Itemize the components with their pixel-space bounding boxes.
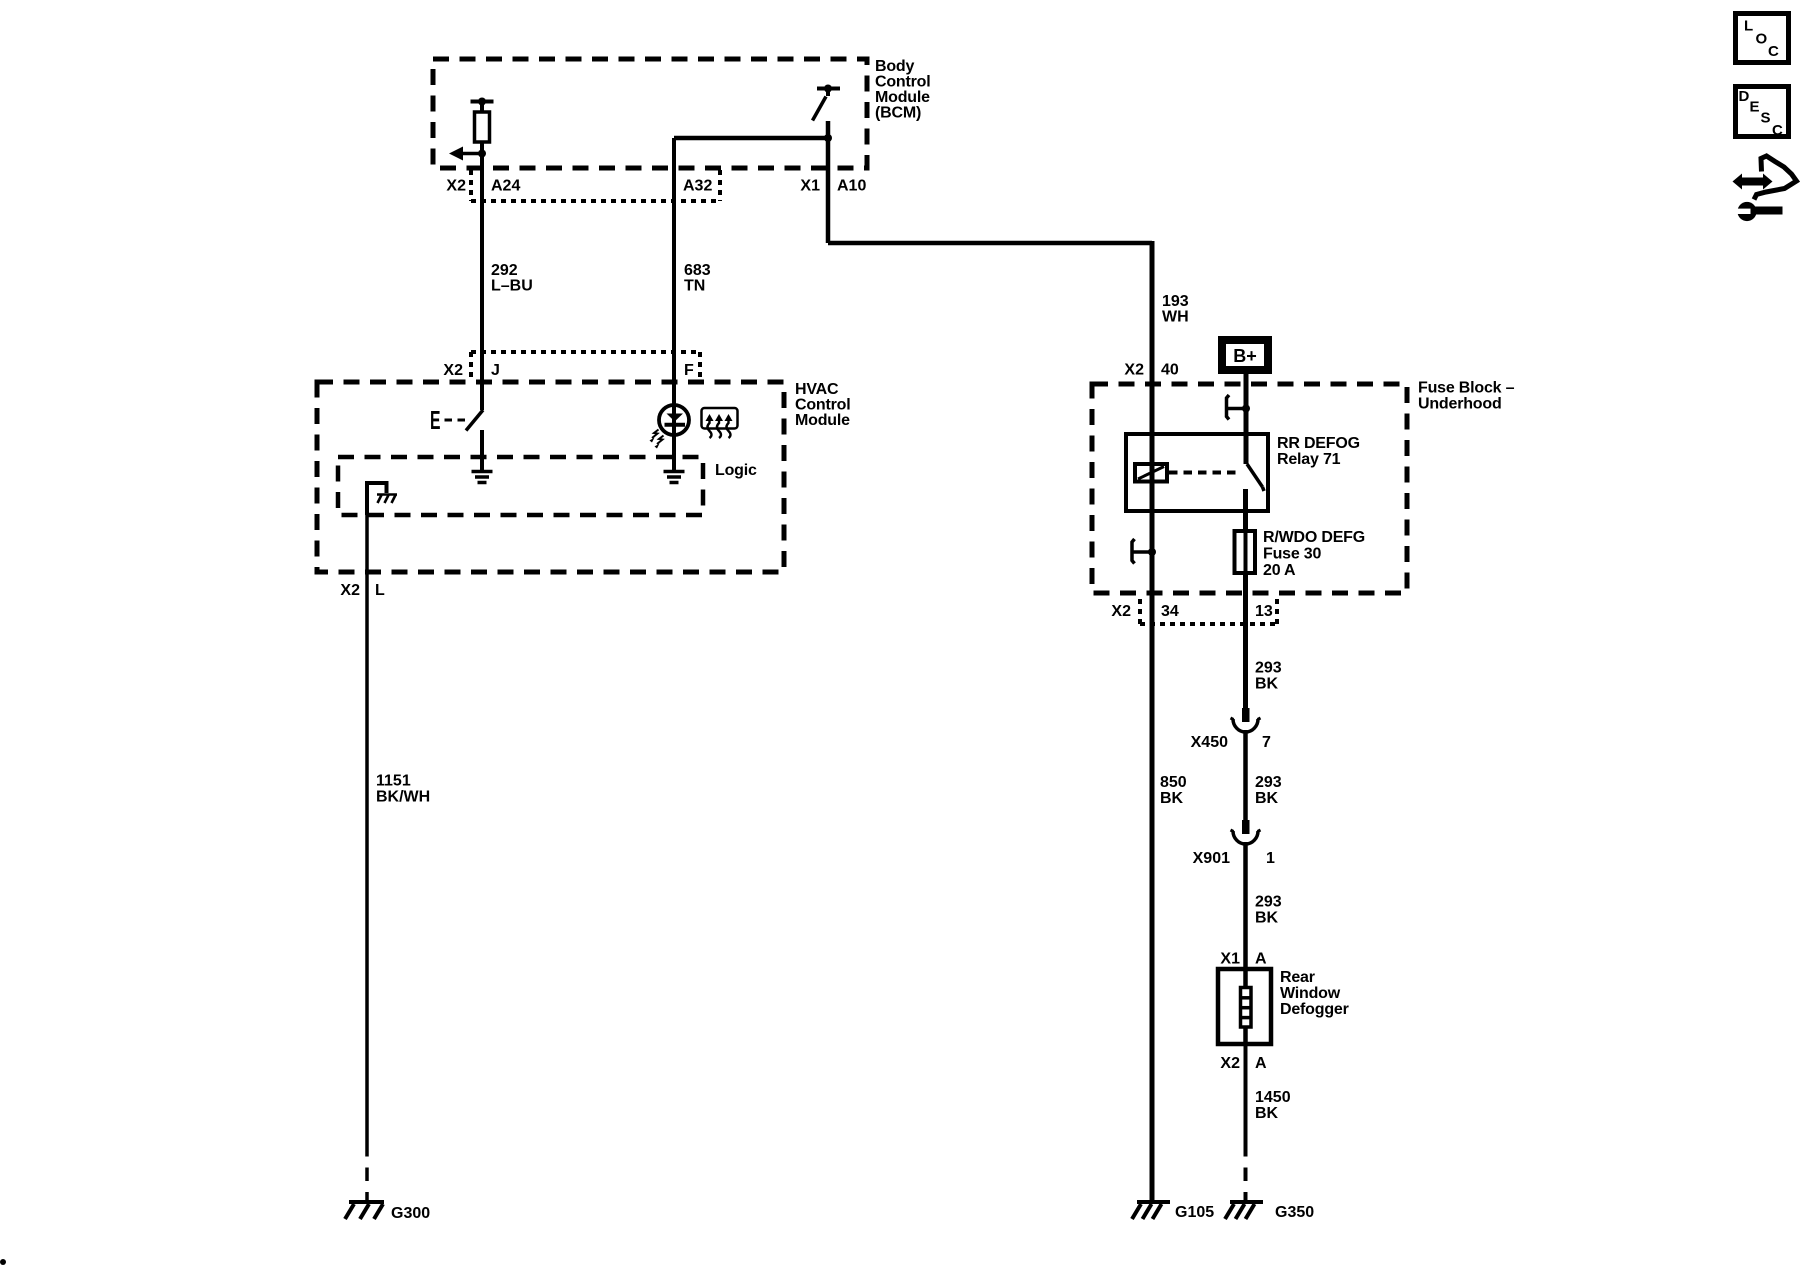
svg-text:Defogger: Defogger bbox=[1280, 1001, 1349, 1018]
node: BCM driver supply tie bbox=[471, 98, 494, 106]
ground: G350 bbox=[1225, 1202, 1263, 1219]
module box: Body Control Module (BCM) bbox=[433, 59, 867, 168]
svg-text:40: 40 bbox=[1161, 362, 1179, 379]
svg-text:BK: BK bbox=[1160, 790, 1184, 807]
wire label: 293 BK (lower) bbox=[1255, 894, 1282, 927]
label: Fuse Block - Underhood bbox=[1418, 380, 1515, 413]
svg-text:L: L bbox=[375, 582, 385, 599]
fuse: R/WDO DEFG Fuse 30 20 A bbox=[1235, 531, 1256, 573]
switch: BCM internal (open blade) bbox=[813, 97, 827, 121]
icon: rear defog heater symbol bbox=[702, 408, 738, 438]
switch: relay contact (open blade) bbox=[1246, 434, 1265, 531]
wire label: 193 WH bbox=[1162, 293, 1189, 326]
svg-text:X1: X1 bbox=[1220, 951, 1240, 968]
ground: HVAC internal below LED bbox=[664, 472, 685, 483]
svg-text:Fuse Block –: Fuse Block – bbox=[1418, 380, 1515, 397]
svg-text:850: 850 bbox=[1160, 774, 1187, 791]
label: HVAC Control Module bbox=[795, 381, 850, 429]
wire: arrow stub bbox=[461, 152, 482, 156]
connector: BCM X2 in-line (dotted) bbox=[471, 170, 720, 201]
wire: circuit 193 WH horizontal run bbox=[828, 241, 1152, 246]
svg-text:TN: TN bbox=[684, 278, 705, 295]
wire: resistor to output node bbox=[480, 142, 484, 154]
wire: circuit 193 WH vertical run to fuse block pin 40 bbox=[1150, 241, 1155, 1202]
icon: diagnostic outline arrow bbox=[1754, 156, 1797, 200]
wire: switch to pin A10 bbox=[826, 121, 831, 243]
svg-text:G300: G300 bbox=[391, 1205, 430, 1222]
svg-text:X2: X2 bbox=[1111, 603, 1131, 620]
svg-text:X2: X2 bbox=[446, 178, 466, 195]
svg-text:A10: A10 bbox=[837, 178, 866, 195]
wire: logic ground feed to pin L bbox=[367, 483, 387, 515]
svg-text:193: 193 bbox=[1162, 293, 1189, 310]
connector: X450 pin 7 (pin and cup) bbox=[1231, 708, 1261, 732]
svg-text:293: 293 bbox=[1255, 660, 1282, 677]
connector: fuse block bottom in-line (dotted) bbox=[1140, 599, 1277, 624]
module box: HVAC Control Module bbox=[317, 382, 784, 572]
wire label: 1151 BK/WH bbox=[376, 773, 430, 806]
heating element: defogger grid bbox=[1241, 969, 1252, 1044]
component box: Rear Window Defogger bbox=[1218, 969, 1271, 1044]
svg-text:7: 7 bbox=[1262, 734, 1271, 751]
svg-text:E: E bbox=[1750, 99, 1760, 116]
relay coil bbox=[1135, 464, 1167, 482]
label: Rear Window Defogger bbox=[1280, 969, 1349, 1018]
svg-text:Control: Control bbox=[795, 397, 850, 414]
svg-text:A32: A32 bbox=[683, 178, 712, 195]
ground: HVAC internal below switch bbox=[472, 472, 493, 483]
junction: A10/A32 branch node bbox=[824, 134, 832, 142]
svg-text:WH: WH bbox=[1162, 309, 1189, 326]
terminal: fuse block bus clip (control wire) bbox=[1132, 539, 1152, 564]
wire label: 292 L-BU bbox=[491, 262, 533, 295]
svg-text:C: C bbox=[1768, 43, 1779, 60]
svg-text:683: 683 bbox=[684, 262, 711, 279]
wire: 1450 BK dashed ground lead bbox=[1244, 1143, 1248, 1202]
svg-text:L–BU: L–BU bbox=[491, 278, 533, 295]
svg-text:BK: BK bbox=[1255, 790, 1279, 807]
svg-text:S: S bbox=[1761, 110, 1771, 127]
LED: defog indicator bbox=[659, 405, 689, 470]
svg-text:X2: X2 bbox=[340, 582, 360, 599]
wire: circuit 1450 BK to G350 bbox=[1244, 1044, 1248, 1143]
svg-text:BK: BK bbox=[1255, 910, 1279, 927]
svg-text:34: 34 bbox=[1161, 603, 1179, 620]
connector: X901 pin 1 (pin and cup) bbox=[1231, 820, 1261, 844]
svg-text:1450: 1450 bbox=[1255, 1089, 1291, 1106]
junction: bus clip node bbox=[1242, 405, 1250, 413]
svg-text:F: F bbox=[684, 362, 694, 379]
module box: Fuse Block - Underhood bbox=[1092, 384, 1407, 593]
svg-text:J: J bbox=[491, 362, 500, 379]
icon: DESC reference box bbox=[1736, 87, 1789, 140]
arrows: LED emission bbox=[650, 430, 664, 449]
wire: circuit 1151 BK/WH to G300 bbox=[365, 483, 369, 1143]
junction: bus clip node bbox=[1148, 548, 1156, 556]
svg-text:Relay 71: Relay 71 bbox=[1277, 451, 1341, 468]
svg-text:E: E bbox=[430, 405, 441, 435]
wire: driver tie to resistor bbox=[480, 102, 484, 113]
icon: LOC reference box bbox=[1736, 14, 1789, 63]
svg-text:X1: X1 bbox=[800, 178, 820, 195]
junction: BCM driver output node bbox=[478, 150, 486, 158]
wire: 293 BK to defogger X1-A bbox=[1243, 842, 1248, 969]
svg-text:A: A bbox=[1255, 1055, 1267, 1072]
wire: fuse output to pin 13 bbox=[1243, 573, 1248, 708]
svg-text:A24: A24 bbox=[491, 178, 520, 195]
wire label: 293 BK (upper) bbox=[1255, 660, 1282, 693]
ground: G105 bbox=[1132, 1202, 1170, 1219]
svg-text:Control: Control bbox=[875, 74, 930, 91]
svg-text:Fuse 30: Fuse 30 bbox=[1263, 546, 1321, 563]
wire: switch lower contact to ground bbox=[480, 430, 484, 470]
svg-text:293: 293 bbox=[1255, 894, 1282, 911]
scan speck: bottom-left bbox=[0, 1259, 6, 1265]
svg-text:RR DEFOG: RR DEFOG bbox=[1277, 435, 1360, 452]
svg-text:D: D bbox=[1739, 88, 1750, 105]
icon: diagnostic double arrow bbox=[1733, 174, 1773, 190]
svg-text:1151: 1151 bbox=[376, 773, 411, 790]
wire label: 683 TN bbox=[684, 262, 711, 295]
ground: G300 bbox=[345, 1202, 384, 1219]
svg-text:Module: Module bbox=[875, 89, 930, 106]
connector: HVAC X2 in-line (dotted) bbox=[471, 352, 700, 380]
svg-text:X450: X450 bbox=[1191, 734, 1228, 751]
svg-text:X2: X2 bbox=[1220, 1055, 1240, 1072]
svg-text:BK: BK bbox=[1255, 676, 1279, 693]
svg-text:C: C bbox=[1772, 122, 1783, 139]
svg-text:Logic: Logic bbox=[715, 462, 757, 479]
wire: relay coil control through fuse block (40 to 34) bbox=[1150, 384, 1155, 593]
svg-text:R/WDO DEFG: R/WDO DEFG bbox=[1263, 529, 1365, 546]
wire label: 293 BK (middle) bbox=[1255, 774, 1282, 807]
svg-text:292: 292 bbox=[491, 262, 518, 279]
svg-text:X2: X2 bbox=[1124, 362, 1144, 379]
svg-text:X2: X2 bbox=[443, 362, 463, 379]
power symbol: B+ bbox=[1222, 340, 1268, 370]
label: Body Control Module (BCM) bbox=[875, 58, 930, 122]
wire label: 850 BK bbox=[1160, 774, 1187, 807]
svg-text:BK: BK bbox=[1255, 1105, 1279, 1122]
svg-text:Body: Body bbox=[875, 58, 915, 75]
label: RR DEFOG Relay 71 bbox=[1277, 435, 1360, 468]
svg-text:1: 1 bbox=[1266, 850, 1275, 867]
terminal: fuse block bus clip (B+ wire) bbox=[1227, 395, 1247, 420]
svg-text:G105: G105 bbox=[1175, 1204, 1214, 1221]
resistor: BCM driver element bbox=[475, 112, 490, 142]
box: Logic block bbox=[338, 457, 703, 515]
wire: branch jumper to A32 bbox=[674, 136, 828, 141]
svg-text:L: L bbox=[1744, 18, 1753, 35]
switch: HVAC defogger request (open blade) bbox=[466, 410, 483, 431]
wire: B+ feed into relay bbox=[1244, 374, 1249, 434]
svg-text:Underhood: Underhood bbox=[1418, 396, 1502, 413]
svg-text:B+: B+ bbox=[1233, 346, 1257, 366]
relay box: RR DEFOG Relay 71 bbox=[1126, 434, 1268, 511]
chassis ground: logic internal bbox=[377, 495, 397, 504]
svg-text:O: O bbox=[1756, 31, 1768, 48]
svg-text:HVAC: HVAC bbox=[795, 381, 839, 398]
svg-text:A: A bbox=[1255, 951, 1267, 968]
svg-text:13: 13 bbox=[1255, 603, 1273, 620]
icon: diagnostic wrench bbox=[1735, 202, 1783, 221]
svg-text:293: 293 bbox=[1255, 774, 1282, 791]
linkage: E dashed tie bbox=[445, 419, 466, 422]
wire: 293 BK between X450 and X901 bbox=[1243, 730, 1248, 820]
svg-text:Rear: Rear bbox=[1280, 969, 1315, 986]
wire label: 1450 BK bbox=[1255, 1089, 1291, 1122]
svg-text:G350: G350 bbox=[1275, 1204, 1314, 1221]
node: BCM switch supply tie bbox=[817, 85, 840, 97]
wire: circuit 683 TN (BCM A32 to HVAC F) bbox=[672, 138, 676, 406]
label: R/WDO DEFG Fuse 30 20 A bbox=[1263, 529, 1365, 579]
wire: circuit 292 L-BU (BCM A24 to HVAC J) bbox=[480, 154, 484, 411]
arrow: driver output direction bbox=[449, 147, 463, 161]
svg-text:(BCM): (BCM) bbox=[875, 105, 921, 122]
svg-text:X901: X901 bbox=[1193, 850, 1230, 867]
wire: 1151 BK/WH dashed ground lead bbox=[365, 1143, 369, 1202]
svg-text:Window: Window bbox=[1280, 985, 1341, 1002]
linkage: relay actuation (dashed) bbox=[1169, 471, 1241, 475]
svg-text:Module: Module bbox=[795, 412, 850, 429]
svg-text:20 A: 20 A bbox=[1263, 562, 1296, 579]
svg-text:BK/WH: BK/WH bbox=[376, 789, 430, 806]
